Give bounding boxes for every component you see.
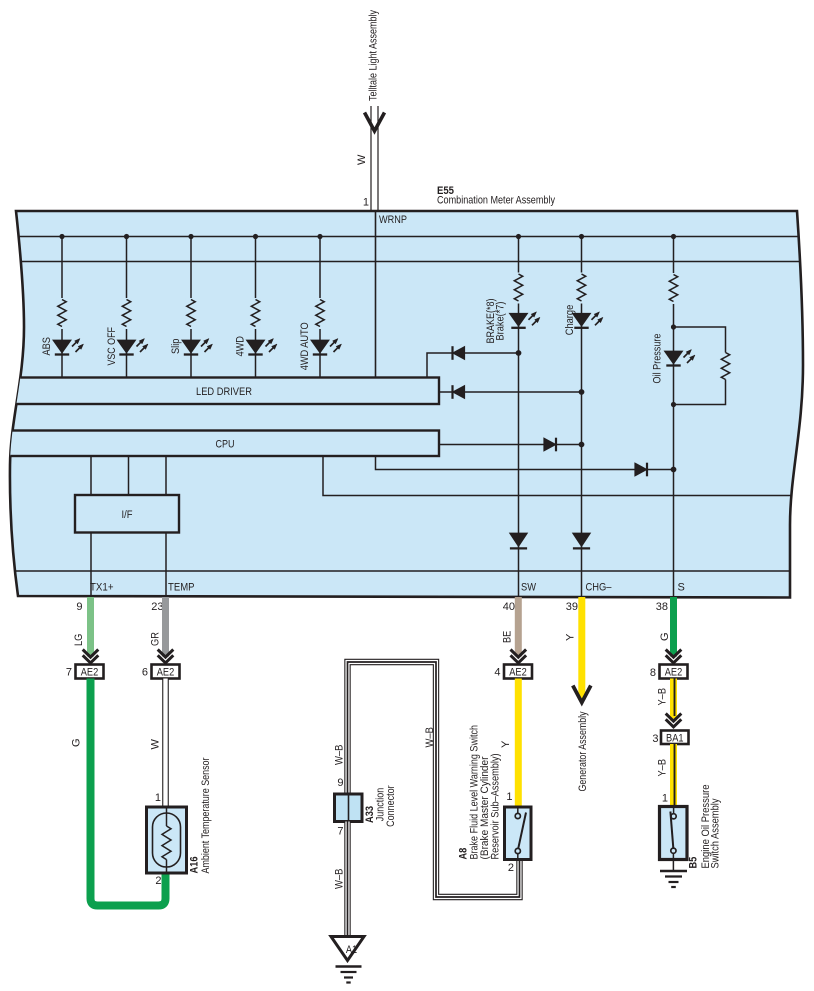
svg-text:7: 7 — [66, 667, 72, 679]
svg-text:B5: B5 — [688, 857, 700, 869]
svg-text:4WD: 4WD — [235, 336, 247, 357]
svg-text:Generator Assembly: Generator Assembly — [577, 711, 589, 791]
svg-text:Combination Meter Assembly: Combination Meter Assembly — [437, 195, 555, 207]
svg-text:7: 7 — [337, 826, 343, 838]
svg-text:38: 38 — [656, 601, 668, 613]
svg-text:G: G — [659, 632, 671, 641]
svg-text:Connector: Connector — [385, 785, 397, 827]
svg-text:9: 9 — [76, 601, 82, 613]
svg-text:I/F: I/F — [122, 509, 133, 521]
svg-text:AE2: AE2 — [157, 667, 175, 679]
wire from CPU to right edge — [323, 456, 814, 496]
svg-text:TX1+: TX1+ — [90, 582, 114, 594]
svg-text:TEMP: TEMP — [168, 582, 195, 594]
svg-text:W–B: W–B — [333, 869, 345, 890]
wire W-B from A33 pin 9 to A8 pin 2 — [348, 662, 520, 897]
svg-text:9: 9 — [337, 777, 343, 789]
wire second rail — [0, 261, 814, 263]
svg-text:Y–B: Y–B — [656, 688, 668, 706]
diode on CHG- line — [573, 533, 591, 548]
wire Y from AE2-4 to A8 pin 1 — [515, 679, 522, 808]
wire CPU to I/F middle — [128, 456, 130, 495]
svg-text:BE: BE — [501, 631, 513, 643]
I/F block — [75, 495, 179, 533]
svg-text:Telltale Light Assembly: Telltale Light Assembly — [368, 10, 380, 101]
svg-text:S: S — [678, 582, 685, 594]
diode D2 LED DRIVER to Charge branch — [439, 385, 584, 399]
resistor parallel with oil pressure LED — [674, 327, 730, 405]
LED Oil Pressure branch / node S — [664, 234, 695, 597]
arrow on telltale wire — [365, 113, 385, 132]
wire BE — [515, 597, 522, 657]
svg-text:2: 2 — [508, 862, 514, 874]
svg-text:Charge: Charge — [564, 305, 576, 336]
svg-text:SW: SW — [521, 582, 537, 594]
svg-text:6: 6 — [142, 667, 148, 679]
wire G from AE2-7 to A16 pin 2 — [91, 679, 166, 906]
svg-text:GR: GR — [149, 632, 161, 646]
ground A1 — [331, 937, 364, 983]
svg-text:VSC OFF: VSC OFF — [106, 327, 118, 366]
svg-text:40: 40 — [503, 601, 515, 613]
arrow chevrons into AE2 pin7 — [83, 650, 99, 663]
LED 4WD branch — [246, 234, 277, 378]
wire TEMP vertical — [165, 533, 167, 598]
arrow chevrons into AE2 pin4 — [511, 650, 527, 663]
svg-text:3: 3 — [652, 733, 658, 745]
wire TX1+ vertical — [90, 533, 92, 598]
wire WRNP bus rail — [0, 236, 814, 238]
svg-text:LG: LG — [73, 634, 85, 646]
LED 4WD AUTO branch — [311, 234, 342, 378]
wire W-B from A33 pin 7 to ground A1 — [344, 822, 350, 937]
svg-text:ABS: ABS — [41, 337, 53, 356]
switch A8 brake fluid level warning switch — [505, 807, 532, 860]
arrow to generator assembly — [573, 686, 591, 703]
LED Charge branch / node CHG- — [572, 234, 603, 597]
LED DRIVER block — [0, 378, 439, 405]
svg-text:W: W — [356, 154, 368, 165]
connector AE2 pin 8 — [660, 665, 688, 679]
svg-text:4: 4 — [494, 667, 500, 679]
svg-text:23: 23 — [151, 601, 163, 613]
wire CPU to I/F left — [90, 456, 92, 495]
diode D3 CPU to CHG- line — [439, 438, 584, 452]
svg-text:Y: Y — [500, 740, 512, 748]
svg-text:AE2: AE2 — [665, 667, 683, 679]
svg-text:AE2: AE2 — [509, 667, 527, 679]
svg-text:2: 2 — [155, 875, 161, 887]
wire Y to generator assembly — [578, 597, 585, 700]
connector AE2 pin 4 — [504, 665, 532, 679]
svg-text:CHG–: CHG– — [586, 582, 613, 594]
diode D4 CPU to S line — [376, 456, 677, 476]
wire pin1 WRNP vertical — [375, 211, 377, 378]
svg-text:Brake(*7): Brake(*7) — [494, 302, 506, 341]
svg-text:Y: Y — [565, 633, 577, 641]
svg-text:Oil Pressure: Oil Pressure — [651, 334, 663, 384]
node junction dots on S branch — [671, 324, 676, 329]
svg-text:Ambient Temperature Sensor: Ambient Temperature Sensor — [200, 757, 212, 873]
diode on SW line — [510, 533, 528, 548]
wire bottom pin rail — [0, 570, 814, 572]
thermistor A16 ambient temperature sensor — [147, 807, 187, 873]
CPU block — [0, 431, 439, 457]
wire LG — [87, 597, 94, 657]
E55 combination meter assembly block — [10, 211, 803, 598]
svg-text:Slip: Slip — [170, 339, 182, 354]
wire W from telltale light assembly — [371, 106, 378, 211]
diode D1 LED DRIVER to BRAKE branch — [427, 346, 521, 377]
svg-text:1: 1 — [506, 791, 512, 803]
LED VSC OFF branch — [117, 234, 148, 378]
svg-text:Y–B: Y–B — [656, 759, 668, 777]
wire G — [670, 597, 677, 657]
wire GR — [162, 597, 169, 657]
svg-text:BA1: BA1 — [666, 733, 684, 745]
junction connector A33 — [335, 794, 363, 822]
svg-text:A16: A16 — [188, 857, 200, 874]
svg-text:WRNP: WRNP — [379, 214, 407, 226]
connector AE2 pin 7 — [76, 665, 104, 679]
svg-text:1: 1 — [662, 793, 668, 805]
svg-text:4WD AUTO: 4WD AUTO — [299, 322, 311, 370]
wire W from AE2-6 to A16 pin 1 — [162, 679, 169, 808]
LED BRAKE branch / node SW — [509, 234, 540, 597]
wire Y-B from AE2-8 to BA1 — [674, 679, 675, 721]
arrow chevrons into AE2 pin6 — [158, 650, 174, 663]
ground below B5 — [660, 871, 687, 887]
svg-text:Switch Assembly: Switch Assembly — [710, 798, 722, 868]
svg-text:LED DRIVER: LED DRIVER — [196, 386, 252, 398]
svg-text:AE2: AE2 — [81, 667, 99, 679]
svg-text:W–B: W–B — [424, 727, 436, 748]
switch B5 engine oil pressure switch — [660, 807, 688, 872]
connector AE2 pin 6 — [152, 665, 180, 679]
wire CPU to I/F right — [165, 456, 167, 495]
svg-text:W–B: W–B — [333, 745, 345, 766]
svg-text:W: W — [149, 739, 161, 750]
svg-text:1: 1 — [155, 792, 161, 804]
arrow chevrons into AE2 pin8 — [666, 650, 682, 663]
svg-text:1: 1 — [363, 197, 369, 209]
LED Slip branch — [182, 234, 213, 378]
connector BA1 pin 3 — [661, 731, 689, 745]
arrow chevrons into BA1 — [666, 714, 682, 727]
svg-text:A1: A1 — [346, 944, 357, 956]
wire Y-B from BA1 to B5 pin 1 — [674, 744, 675, 807]
svg-text:CPU: CPU — [216, 439, 235, 451]
LED ABS branch — [53, 234, 84, 378]
svg-text:G: G — [71, 738, 83, 747]
svg-text:39: 39 — [566, 601, 578, 613]
svg-text:Reservoir Sub–Assembly): Reservoir Sub–Assembly) — [489, 754, 501, 860]
svg-text:8: 8 — [650, 667, 656, 679]
